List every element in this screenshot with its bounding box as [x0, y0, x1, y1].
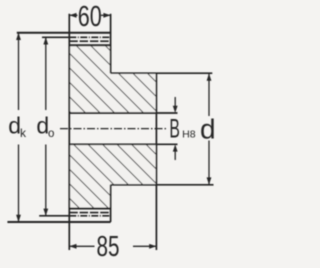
arrow do top	[43, 37, 48, 44]
svg-text:d: d	[200, 113, 216, 144]
tip line bottom	[7, 221, 110, 223]
arrow do bottom	[43, 209, 48, 216]
pitch line top dash-dot	[69, 36, 110, 38]
pitch line bottom dash-dot	[69, 215, 110, 217]
pitch line top solid extension	[42, 36, 69, 38]
dimension do line lower	[45, 145, 47, 216]
dimension dk line upper	[18, 33, 20, 110]
dimension 85 line right segment	[133, 245, 156, 247]
pitch line bottom solid extension	[39, 215, 69, 217]
hub top line	[111, 72, 213, 74]
dimension d line upper	[208, 74, 210, 116]
dimension dk line lower	[18, 145, 20, 222]
bore top line	[69, 112, 177, 114]
dimension 60 line right segment	[101, 14, 111, 16]
root line top dashed	[69, 40, 110, 42]
arrow 60 right	[103, 13, 110, 18]
dimension 85 line left segment	[69, 245, 94, 247]
bore bottom line	[69, 143, 177, 145]
arrow d top	[207, 74, 212, 81]
arrow 85 left	[69, 244, 76, 249]
hub right edge + 85 extension	[155, 73, 157, 250]
tip line top (dk)	[17, 32, 111, 34]
arrow d bottom	[207, 177, 212, 184]
arrow 85 right	[149, 244, 156, 249]
dimension B stem bottom	[174, 150, 176, 160]
hatched gear rim section (upper)	[69, 45, 156, 113]
rim shoulder bottom	[69, 208, 110, 210]
svg-text:o: o	[48, 128, 54, 140]
rim shoulder top	[69, 44, 110, 46]
dimension do line upper	[45, 37, 47, 110]
left edge + extension line	[68, 14, 70, 250]
svg-text:85: 85	[97, 231, 120, 263]
arrow B bottom	[173, 144, 178, 151]
dimension 60 line left segment	[69, 14, 77, 16]
svg-text:60: 60	[78, 1, 102, 33]
dimension d line lower	[208, 141, 210, 185]
arrow dk top	[16, 33, 21, 40]
dimension B stem top	[174, 97, 176, 108]
root line bottom dashed	[69, 212, 110, 214]
svg-text:H8: H8	[182, 130, 196, 141]
rim right edge upper + 60 extension	[110, 14, 112, 73]
centerline dash-dot	[60, 128, 167, 130]
arrow dk bottom	[16, 215, 21, 222]
hatched gear rim section (lower)	[69, 144, 156, 208]
arrow 60 left	[69, 13, 76, 18]
arrow B top	[173, 106, 178, 113]
svg-text:B: B	[169, 114, 180, 144]
svg-text:k: k	[20, 126, 27, 140]
hub bottom line	[111, 184, 214, 186]
rim right edge lower	[110, 185, 112, 222]
